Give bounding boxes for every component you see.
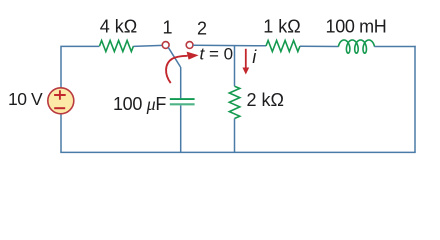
source plus sign [54, 90, 66, 99]
svg-text:100 μF: 100 μF [113, 94, 166, 114]
wire capacitor top lead [180, 67, 182, 98]
switch motion arc t=0 [166, 56, 187, 83]
svg-text:2 kΩ: 2 kΩ [247, 90, 284, 110]
switch terminal node 1 [162, 42, 169, 49]
inductor L1 100 mH coil [338, 40, 374, 53]
resistor R1 4 kOhm zigzag [100, 41, 134, 52]
wire 2k bottom lead [234, 119, 236, 153]
svg-text:4 kΩ: 4 kΩ [100, 16, 137, 36]
svg-text:t = 0: t = 0 [200, 44, 234, 63]
svg-text:1 kΩ: 1 kΩ [263, 17, 300, 37]
svg-text:100 mH: 100 mH [326, 17, 387, 37]
wire 1k to inductor [300, 45, 339, 47]
source minus sign [54, 107, 65, 109]
wire source bottom lead [60, 114, 62, 153]
svg-text:2: 2 [197, 18, 207, 38]
capacitor C1 bottom plate [170, 103, 195, 105]
resistor R3 2 kOhm zigzag [229, 86, 240, 118]
switch terminal node 2 [186, 42, 193, 49]
svg-text:10 V: 10 V [8, 89, 43, 109]
wire switch pole 2 to right section [193, 44, 266, 47]
switch motion arrowhead [187, 52, 199, 60]
wire inductor to right corner [374, 46, 415, 48]
wire capacitor bottom lead [180, 106, 182, 153]
wire resistor to switch pole 1 [134, 45, 163, 46]
voltage source V1 [48, 88, 74, 114]
svg-text:1: 1 [162, 18, 172, 38]
current arrow i [245, 49, 247, 70]
wire 2k branch riser [234, 46, 236, 86]
wire left riser [61, 46, 100, 88]
capacitor C1 top plate [170, 98, 195, 100]
wire bottom [60, 151, 415, 153]
wire right side [414, 46, 416, 153]
switch blade wire [168, 47, 180, 67]
resistor R2 1 kOhm zigzag [266, 41, 300, 52]
svg-text:i: i [252, 47, 257, 67]
